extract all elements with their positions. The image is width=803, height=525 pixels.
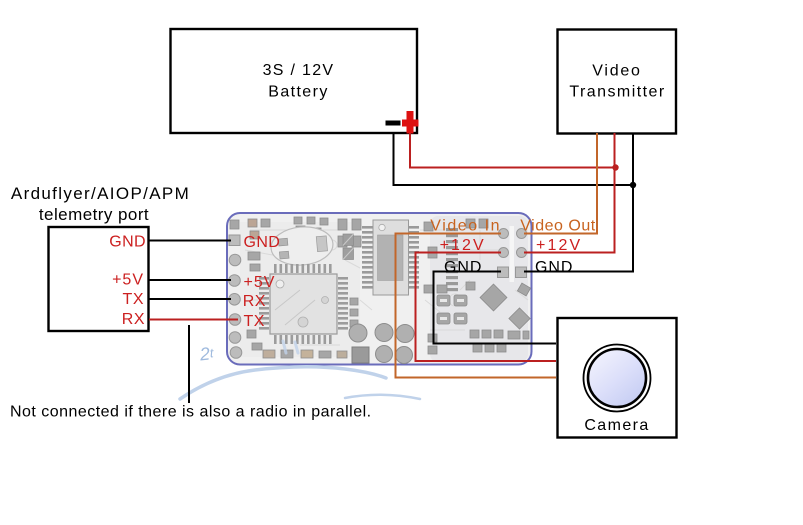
telemetry port box [49, 227, 149, 331]
wire ground bus VTX to OSD GND out [524, 133, 633, 272]
svg-text:GND: GND [109, 233, 146, 250]
PCB trace texture [245, 230, 528, 345]
svg-text:RX: RX [243, 293, 266, 310]
watermark swoosh [180, 341, 420, 399]
12V junction dot [612, 164, 618, 170]
svg-text:Video: Video [592, 63, 641, 80]
svg-text:RX: RX [122, 311, 145, 328]
svg-text:GND: GND [535, 259, 573, 276]
right pad grid [498, 229, 527, 278]
battery box [171, 29, 418, 133]
video chip U2 body [373, 220, 409, 295]
svg-text:2t: 2t [198, 343, 216, 365]
wire OSD +12V in to camera power [416, 253, 557, 362]
PCB crystal oval [269, 224, 334, 267]
wire 12V bus VTX to OSD +12V out [524, 133, 615, 253]
MCU QFP chip U1 [259, 264, 348, 344]
PCB left pad column [229, 235, 242, 358]
svg-text:Not connected if there is also: Not connected if there is also a radio i… [10, 404, 372, 421]
svg-text:Transmitter: Transmitter [569, 84, 665, 101]
svg-text:TX: TX [244, 313, 265, 330]
SOT stripe details [440, 299, 464, 320]
wire TX telemetry to OSD RX [149, 298, 231, 300]
PCB board outline [227, 213, 532, 365]
wire OSD GND in to camera ground [434, 272, 557, 344]
svg-text:telemetry port: telemetry port [39, 205, 149, 224]
svg-text:+12V: +12V [440, 237, 486, 254]
wire +5V telemetry to OSD [149, 279, 231, 281]
svg-text:Video In: Video In [430, 218, 501, 235]
wire GND telemetry to OSD [149, 240, 231, 242]
camera lens [588, 349, 646, 407]
camera box [558, 318, 677, 438]
svg-text:+12V: +12V [536, 237, 582, 254]
lower right parts cluster [428, 282, 531, 354]
svg-text:TX: TX [123, 291, 144, 308]
video transmitter box [558, 30, 677, 134]
video chip U2 pins [362, 226, 419, 289]
bottom middle pads [349, 324, 414, 364]
battery plus terminal [402, 111, 419, 134]
svg-text:Battery: Battery [268, 84, 329, 101]
wire OSD Video In to camera video [396, 234, 557, 378]
PCB top-left small parts [230, 217, 361, 271]
top right small parts [424, 219, 488, 293]
wire RX telemetry to OSD TX (red) [149, 319, 238, 321]
wire VTX video to OSD Video Out [524, 133, 597, 234]
wire battery plus to 12V bus [410, 133, 616, 168]
svg-text:+5V: +5V [244, 274, 276, 291]
battery minus terminal [386, 121, 401, 126]
svg-text:+5V: +5V [112, 272, 144, 289]
svg-text:Arduflyer/AIOP/APM: Arduflyer/AIOP/APM [11, 184, 190, 203]
svg-text:GND: GND [444, 259, 482, 276]
svg-text:3S / 12V: 3S / 12V [263, 62, 335, 79]
svg-text:Camera: Camera [584, 417, 649, 434]
camera lens outer ring [584, 345, 651, 412]
not-connected pointer line [188, 325, 190, 403]
small parts between chips [247, 298, 358, 358]
wire battery minus to ground bus [394, 133, 634, 185]
ground junction dot [630, 182, 636, 188]
diode pair D1 D2 [343, 234, 354, 260]
svg-text:Video Out: Video Out [520, 218, 595, 235]
resistor column [446, 228, 458, 291]
svg-text:GND: GND [244, 234, 281, 251]
